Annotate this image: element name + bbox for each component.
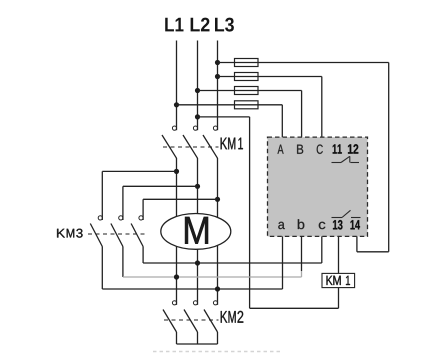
- contactor KM1 pole 2 blade: [183, 135, 198, 158]
- wire right side vertical: [388, 63, 390, 252]
- wire KM2 pole1 bottom riser: [176, 332, 178, 344]
- node L1-FU4 junction: [174, 102, 179, 107]
- relay terminal label C: [317, 144, 323, 153]
- motor M1 letter: [185, 217, 208, 244]
- relay terminal label B: [297, 145, 303, 154]
- label L1: [165, 18, 183, 32]
- relay U1 body: [268, 137, 368, 236]
- relay terminal label 11: [333, 144, 342, 153]
- wire L1 vertical top: [176, 41, 178, 131]
- label KM3 contactor: [57, 229, 65, 238]
- node L3-FU1 junction: [215, 60, 220, 65]
- wire KM3 pole1 top riser: [101, 171, 103, 220]
- wire relay output b vertical lower (gray): [301, 271, 303, 277]
- wire FU3 row: [198, 90, 302, 92]
- relay terminal label A: [277, 145, 283, 154]
- wire KM3 pole2 top riser: [122, 186, 124, 220]
- contactor KM1 pole 1 terminal: [172, 126, 176, 130]
- wire phase3 middle vertical: [217, 158, 219, 305]
- wire L3 vertical top: [217, 41, 219, 131]
- wire relay input B vertical: [301, 91, 303, 138]
- relay terminal label 14: [351, 220, 360, 229]
- node V2 junction: [174, 274, 179, 279]
- contactor KM2 linkage: [164, 319, 219, 321]
- fuse FU4: [235, 101, 259, 109]
- label KM1 contactor: [221, 138, 228, 150]
- node W1 junction: [215, 197, 220, 202]
- fuse FU2: [235, 73, 259, 81]
- contactor KM2 pole 2 terminal: [193, 301, 197, 305]
- wire coil return horizontal: [250, 307, 339, 309]
- contactor KM1 pole 3 terminal: [213, 126, 217, 130]
- contactor KM1 pole 2 terminal: [193, 126, 197, 130]
- wire relay input A vertical: [281, 105, 283, 137]
- wire a line horizontal: [102, 288, 282, 290]
- relay terminal label 13: [333, 220, 342, 230]
- coil KM1 body: [322, 273, 355, 287]
- node L3-FU2 junction: [215, 74, 220, 79]
- motor M1 body: [161, 214, 231, 250]
- caption remnant: [153, 351, 281, 353]
- wire b line horizontal (gray): [123, 276, 302, 278]
- contactor KM3 pole 3 terminal: [139, 216, 143, 220]
- wire KM3 pole3 bottom riser: [142, 247, 144, 264]
- contactor KM3 linkage: [88, 233, 147, 235]
- contactor KM3 pole 1 terminal: [98, 216, 102, 220]
- fuse FU3: [235, 87, 259, 95]
- wire relay output a vertical: [282, 236, 284, 289]
- wire control tap horizontal: [198, 116, 250, 118]
- relay contact 11-12: [332, 156, 360, 162]
- contactor KM2 pole 3 blade: [204, 310, 218, 333]
- node L2-control junction: [195, 114, 200, 119]
- label KM2 contactor: [221, 311, 228, 323]
- node U2 junction: [195, 260, 200, 265]
- contactor KM2 pole 1 blade: [163, 310, 177, 333]
- relay contact 13-14: [332, 210, 361, 217]
- wire KM2 pole2 bottom riser: [197, 332, 199, 344]
- wire phase2 middle vertical: [197, 158, 199, 305]
- wire KM3 pole3 top horizontal: [143, 198, 217, 200]
- contactor KM1 pole 3 blade: [203, 135, 218, 158]
- contactor KM2 pole 2 blade: [184, 310, 198, 333]
- wire relay 13 to coil: [338, 236, 340, 273]
- wire FU4 row: [177, 104, 283, 106]
- node W2 junction: [215, 286, 220, 291]
- relay terminal label 12: [348, 144, 358, 153]
- contactor KM3 pole 1 blade: [90, 224, 102, 247]
- fuse FU1: [235, 59, 259, 67]
- node V1 junction: [195, 184, 200, 189]
- wire KM3 pole1 bottom riser: [101, 247, 103, 290]
- contactor KM1 pole 1 blade: [162, 135, 177, 158]
- contactor KM3 pole 3 blade: [131, 224, 143, 247]
- contactor KM1 linkage: [163, 146, 219, 148]
- coil KM1 label: [327, 276, 333, 285]
- contactor KM2 pole 3 terminal: [213, 301, 217, 305]
- wire coil bottom: [338, 288, 340, 309]
- node L2-FU3 junction: [195, 88, 200, 93]
- wire relay 14 down: [356, 236, 358, 251]
- wire phase1 middle vertical: [176, 158, 178, 305]
- contactor KM2 pole 1 terminal: [172, 301, 176, 305]
- wire L2 vertical top: [197, 41, 199, 131]
- relay terminal label a: [278, 222, 284, 229]
- wire KM3 pole2 bottom riser: [122, 247, 124, 278]
- contactor KM3 pole 2 terminal: [119, 216, 123, 220]
- node U1 junction: [174, 169, 179, 174]
- contactor KM3 pole 2 blade: [111, 224, 123, 247]
- label L3: [215, 18, 234, 32]
- wire relay input C vertical: [321, 77, 323, 138]
- wire relay output c vertical: [321, 236, 323, 263]
- wire KM3 pole3 top riser: [142, 199, 144, 220]
- wire c line horizontal: [143, 262, 322, 264]
- wire KM2 pole3 bottom riser: [217, 332, 219, 344]
- label L2: [191, 18, 210, 32]
- relay terminal label c: [319, 222, 326, 229]
- wire KM3 pole1 top horizontal: [102, 170, 176, 172]
- relay terminal label b: [298, 219, 304, 229]
- wire relay output b vertical: [301, 236, 303, 271]
- wire KM3 pole2 top horizontal: [123, 185, 198, 187]
- wire FU2 row: [218, 76, 322, 78]
- wire 14 horizontal: [357, 251, 389, 253]
- wire control vertical: [249, 117, 251, 308]
- wire FU1 row: [218, 62, 389, 64]
- wire star point link: [177, 343, 218, 345]
